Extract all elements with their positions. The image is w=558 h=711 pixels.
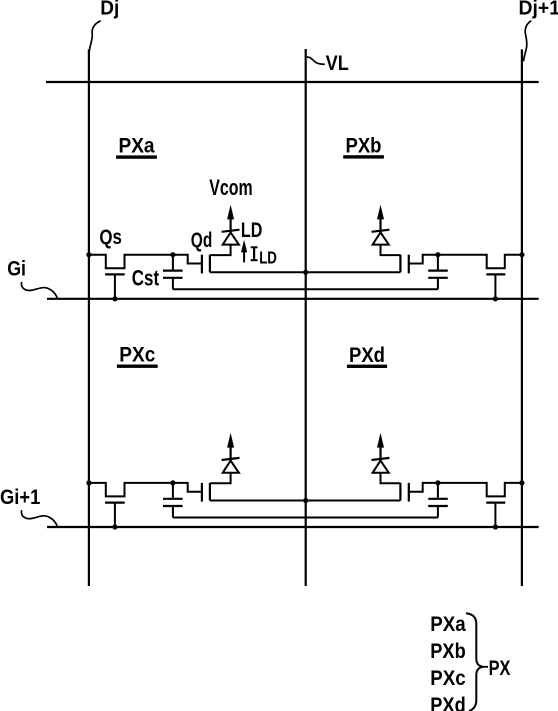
junction: source wire on power line VL	[303, 270, 308, 275]
transistor Qd' gate bar	[201, 483, 203, 502]
wire: Dj+1 to Qsb path and node to Qdb gate lead	[410, 255, 522, 269]
wire: capacitor common wire crossing VL	[173, 288, 438, 290]
LED LD' (left pixel)	[223, 461, 239, 473]
wire: Qdb' drain to LDb' anode	[381, 473, 401, 484]
junction: Qs' on data line Dj	[86, 480, 91, 485]
current arrow I_LD	[243, 252, 245, 263]
junction: Qsb on data line Dj+1	[519, 252, 524, 257]
svg-text:LD: LD	[241, 219, 263, 242]
capacitor Cst top lead	[172, 255, 174, 270]
svg-text:PXa: PXa	[119, 133, 156, 157]
junction: Qs gate on scan line	[112, 296, 117, 301]
wire: Qdb drain to LDb anode	[381, 245, 401, 256]
wire: Qd' source to VL	[210, 500, 401, 502]
transistor Qd gate bar	[201, 255, 203, 274]
leader from label Gi to scan line	[21, 282, 57, 298]
wire: Dj to Qs' drain/source path and node A' to Qd' gate lead	[89, 483, 201, 497]
svg-text:PXb: PXb	[346, 134, 382, 158]
data line Dj (vertical)	[88, 50, 90, 587]
junction: Qs' gate on scan line	[112, 524, 117, 529]
power line VL (vertical)	[305, 49, 307, 586]
transistor Qsb gate bar	[486, 273, 505, 275]
LED LD (left pixel)	[223, 232, 239, 244]
svg-text:PXd: PXd	[349, 343, 385, 367]
data line Dj+1 (vertical)	[521, 49, 523, 586]
transistor Qs gate bar	[105, 273, 125, 275]
wire: Qd drain to LD anode	[210, 245, 231, 256]
curly brace grouping pixel list	[466, 613, 483, 711]
transistor Qd channel bar	[209, 255, 211, 273]
svg-text:PX: PX	[489, 656, 511, 680]
svg-text:LD: LD	[259, 247, 277, 267]
tick from brace cusp to PX	[483, 666, 488, 668]
svg-text:Vcom: Vcom	[209, 175, 252, 200]
wire: Cstb bottom lead	[437, 278, 439, 290]
wire: Qsb' gate lead to scan line	[494, 503, 496, 527]
capacitor Cst' top lead	[172, 483, 174, 498]
junction: Qs on data line Dj	[86, 252, 91, 257]
transistor Qdb channel bar	[399, 255, 401, 273]
capacitor Cst' bottom plate	[163, 505, 183, 507]
node B': storage node junction (right pixel)	[435, 480, 440, 485]
wire: Cst' bottom lead	[172, 506, 174, 518]
capacitor Cst bottom plate	[163, 277, 183, 279]
capacitor Cstb' top lead	[437, 483, 439, 498]
capacitor Cst top plate	[163, 270, 183, 272]
wire: capacitor common wire crossing VL	[173, 517, 438, 519]
top horizontal line	[46, 81, 539, 83]
transistor Qs' gate bar	[105, 502, 125, 504]
capacitor Cst' top plate	[163, 498, 183, 500]
leader from label Dj to data line	[89, 21, 101, 53]
junction: Qsb' gate on scan line	[493, 524, 498, 529]
svg-text:Gi: Gi	[7, 258, 26, 281]
svg-text:Cst: Cst	[132, 266, 160, 291]
transistor Qdb' gate bar	[408, 483, 410, 502]
node B: storage node junction (right pixel)	[435, 252, 440, 257]
junction: Qsb' on data line Dj+1	[519, 480, 524, 485]
wire: Qd source to VL	[210, 271, 401, 273]
svg-text:PXc: PXc	[430, 666, 465, 690]
svg-text:Qd: Qd	[191, 229, 213, 252]
scan line Gi+1 (horizontal)	[47, 526, 539, 528]
node A: storage node junction	[170, 252, 175, 257]
capacitor Cstb' bottom plate	[428, 505, 448, 507]
svg-text:PXd: PXd	[430, 693, 465, 711]
wire: Cst bottom lead	[172, 278, 174, 290]
leader from label VL to power line	[307, 57, 325, 64]
svg-text:PXa: PXa	[430, 612, 466, 636]
capacitor Cstb' top plate	[428, 498, 448, 500]
svg-text:PXc: PXc	[119, 343, 155, 367]
junction: source wire on power line VL	[303, 498, 308, 503]
transistor Qdb gate bar	[408, 255, 410, 274]
wire: Qsb gate lead to scan line	[494, 274, 496, 298]
capacitor Cstb top plate	[428, 270, 448, 272]
label I_LD	[253, 247, 255, 260]
svg-text:Dj+1: Dj+1	[519, 0, 558, 19]
svg-text:Gi+1: Gi+1	[0, 486, 41, 509]
wire: Qd' drain to LD' anode	[210, 473, 231, 484]
wire: Dj+1 to Qs'b path and node to Qdb' gate lead	[410, 483, 522, 497]
junction: Qsb gate on scan line	[493, 296, 498, 301]
wire: Dj to Qs drain/source path and node A to Qd gate lead	[89, 255, 201, 269]
wire: Qs gate lead to scan line	[114, 274, 116, 298]
LED LDb' (right pixel)	[373, 461, 389, 473]
svg-text:PXb: PXb	[430, 639, 465, 663]
wire: Qs' gate lead to scan line	[114, 503, 116, 527]
scan line Gi (horizontal)	[47, 298, 539, 300]
leader from label Dj+1 to data line	[524, 21, 532, 62]
LED LDb (right pixel)	[373, 232, 389, 244]
capacitor Cstb bottom plate	[428, 277, 448, 279]
svg-text:Dj: Dj	[100, 0, 119, 19]
capacitor Cstb top lead	[437, 255, 439, 270]
leader from label Gi+1 to scan line	[21, 510, 57, 526]
wire: Cstb' bottom lead	[437, 506, 439, 518]
node A': storage node junction	[170, 480, 175, 485]
svg-text:Qs: Qs	[99, 226, 122, 249]
transistor Qdb' channel bar	[399, 483, 401, 501]
transistor Qsb' gate bar	[486, 502, 505, 504]
transistor Qd' channel bar	[209, 483, 211, 501]
svg-text:VL: VL	[326, 52, 349, 75]
